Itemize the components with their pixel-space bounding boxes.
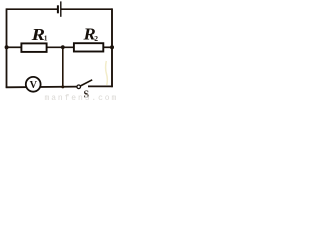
battery cell positive plate (long thin): [60, 1, 62, 16]
wire top-right segment: [61, 8, 112, 10]
svg-text:manfen5.com: manfen5.com: [45, 94, 119, 102]
wire right side: [111, 8, 113, 87]
watermark squiggle: [106, 61, 108, 85]
node junction bottom (branch to bottom wire): [61, 85, 64, 88]
wire middle row center lead: [47, 46, 74, 48]
wire bottom-left segment (through voltmeter): [6, 86, 77, 89]
resistor R2 body: [74, 43, 103, 51]
wire middle vertical branch: [62, 47, 64, 88]
switch S blade: [80, 80, 92, 86]
switch S pivot contact: [77, 85, 81, 89]
svg-text:2: 2: [94, 34, 98, 43]
wire left side: [6, 8, 8, 87]
resistor R1 body: [21, 43, 46, 52]
svg-text:1: 1: [44, 34, 48, 43]
voltmeter V1 body: [26, 77, 41, 92]
wire middle row left lead: [6, 46, 22, 48]
node junction middle (R1-R2 to branch): [61, 45, 65, 49]
wire top-left segment: [7, 8, 58, 10]
node junction right (middle row to right wire): [110, 45, 114, 49]
node junction left (middle row to left wire): [5, 45, 9, 49]
wire bottom-right segment (after switch): [88, 85, 113, 87]
battery cell negative plate (short thick): [57, 5, 59, 13]
wire middle row right lead: [103, 46, 113, 48]
svg-text:V: V: [30, 80, 38, 91]
